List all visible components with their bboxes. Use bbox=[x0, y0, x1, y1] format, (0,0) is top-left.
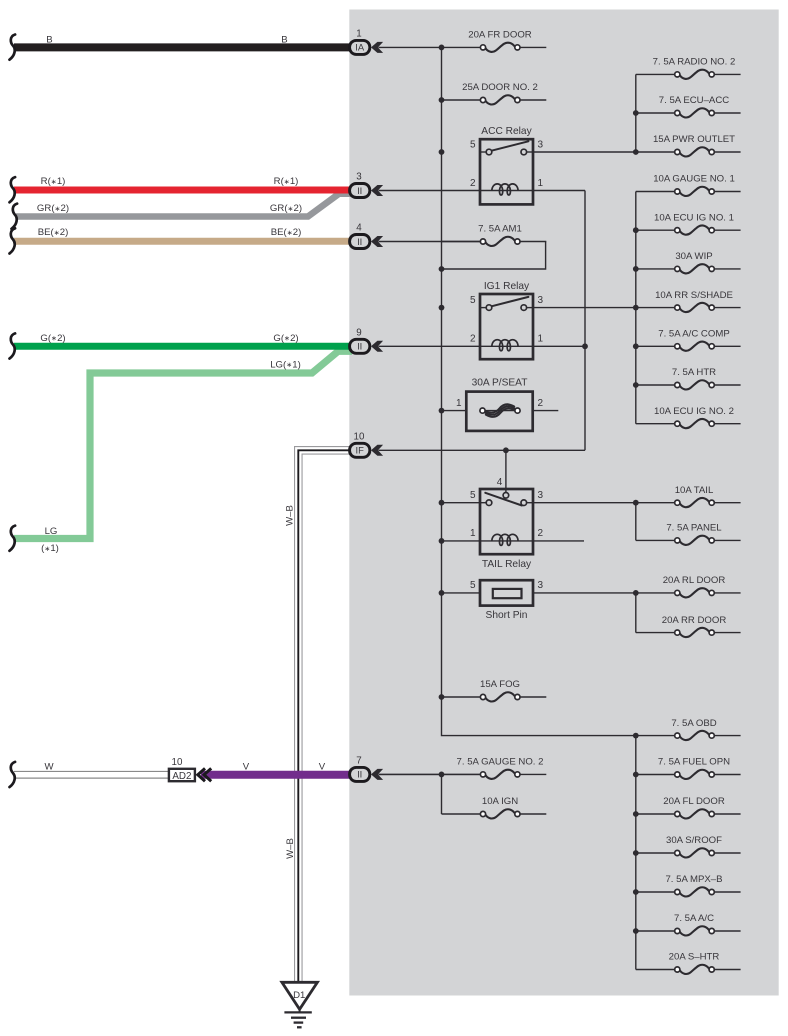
svg-text:3: 3 bbox=[356, 172, 362, 183]
wire: ACC relay pin 3 to right bus bbox=[533, 151, 636, 153]
pigtail wire B bbox=[10, 35, 16, 60]
svg-text:W: W bbox=[44, 762, 54, 773]
svg-text:10A ECU IG NO. 1: 10A ECU IG NO. 1 bbox=[654, 212, 734, 223]
pigtail wire W bbox=[10, 762, 16, 787]
svg-text:10A GAUGE NO. 1: 10A GAUGE NO. 1 bbox=[653, 174, 735, 185]
fuse 15A PWR OUTLET bbox=[636, 134, 741, 156]
svg-text:10A ECU IG NO. 2: 10A ECU IG NO. 2 bbox=[654, 406, 734, 417]
fuse 30A S/ROOF bbox=[636, 835, 741, 857]
wire: bus to P/SEAT pin 1 bbox=[442, 410, 467, 412]
svg-text:2: 2 bbox=[470, 178, 476, 189]
svg-text:3: 3 bbox=[538, 490, 544, 501]
wire: right bus door group bbox=[635, 593, 637, 633]
wire: Short Pin pin 3 to right bus bbox=[533, 592, 636, 594]
svg-text:10A IGN: 10A IGN bbox=[482, 796, 518, 807]
svg-text:20A FL DOOR: 20A FL DOOR bbox=[663, 796, 725, 807]
fuse 10A ECU IG NO. 1 bbox=[636, 212, 741, 234]
svg-text:AD2: AD2 bbox=[172, 771, 191, 782]
fuse 7. 5A OBD bbox=[636, 718, 741, 740]
junction dot coil return at IG1 pin 1 bbox=[582, 343, 588, 349]
fuse 7. 5A RADIO NO. 2 bbox=[636, 57, 741, 79]
fuse 7. 5A A/C bbox=[636, 913, 741, 935]
junction dot IF wire to TAIL pin 4 bbox=[503, 447, 509, 453]
relay ACC Relay bbox=[470, 126, 544, 205]
svg-text:7. 5A MPX–B: 7. 5A MPX–B bbox=[665, 874, 722, 885]
connector AD2 bbox=[169, 757, 195, 782]
svg-text:15A PWR OUTLET: 15A PWR OUTLET bbox=[653, 134, 735, 145]
fuse 7. 5A A/C COMP bbox=[636, 329, 741, 351]
relay IG1 Relay bbox=[470, 281, 544, 359]
svg-text:30A P/SEAT: 30A P/SEAT bbox=[472, 377, 528, 388]
wire LG light green bbox=[14, 351, 352, 538]
fuse 10A RR S/SHADE bbox=[636, 290, 741, 312]
svg-text:1: 1 bbox=[538, 334, 544, 345]
ground D1 bbox=[282, 982, 318, 1027]
wire: IGN branch drop bbox=[441, 774, 443, 814]
wire W white bbox=[14, 771, 169, 779]
svg-text:4: 4 bbox=[356, 223, 362, 234]
relay TAIL Relay bbox=[470, 489, 544, 554]
svg-text:1: 1 bbox=[356, 28, 361, 39]
svg-text:GR(∗​2): GR(∗​2) bbox=[270, 203, 302, 214]
wire: connector 9 to IG1 relay pin 2 bbox=[379, 345, 481, 347]
connector AD2 chevrons bbox=[198, 768, 211, 781]
wire V purple bbox=[201, 771, 352, 779]
fuse 20A FR DOOR bbox=[442, 30, 547, 52]
svg-text:LG: LG bbox=[45, 526, 58, 537]
svg-text:IG1 Relay: IG1 Relay bbox=[484, 281, 530, 292]
connector 9 II bbox=[350, 327, 384, 353]
svg-text:II: II bbox=[357, 769, 362, 780]
svg-text:30A WIP: 30A WIP bbox=[675, 251, 712, 262]
wire: TAIL relay pin 2 stub bbox=[533, 540, 584, 542]
wire: connector IF to relay returns bbox=[379, 449, 586, 451]
svg-text:5: 5 bbox=[470, 295, 476, 306]
svg-text:5: 5 bbox=[470, 490, 476, 501]
fuse 25A DOOR NO. 2 bbox=[442, 82, 547, 104]
wire: right bus TAIL group bbox=[635, 503, 637, 541]
svg-text:BE(∗​2): BE(∗​2) bbox=[38, 227, 69, 238]
fuse 7. 5A ECU–ACC bbox=[636, 95, 741, 117]
fuse 20A RL DOOR bbox=[636, 575, 741, 597]
svg-text:5: 5 bbox=[470, 139, 476, 150]
svg-text:4: 4 bbox=[497, 477, 503, 488]
fuse 7. 5A MPX–B bbox=[636, 874, 741, 896]
svg-text:10A TAIL: 10A TAIL bbox=[675, 485, 714, 496]
svg-text:7. 5A A/C: 7. 5A A/C bbox=[674, 913, 714, 924]
wire: right bus OBD group bbox=[635, 736, 637, 970]
wire: IA connector to bus bbox=[379, 46, 442, 48]
wire W-B white with black stripe bbox=[298, 450, 352, 982]
pigtail wire BE bbox=[10, 228, 16, 253]
svg-text:BE(∗​2): BE(∗​2) bbox=[271, 227, 302, 238]
svg-text:20A RL DOOR: 20A RL DOOR bbox=[663, 575, 726, 586]
connector 1 IA bbox=[350, 28, 384, 54]
short pin block bbox=[470, 580, 544, 621]
svg-text:20A FR DOOR: 20A FR DOOR bbox=[468, 30, 532, 41]
connector 3 II bbox=[350, 172, 384, 198]
svg-text:20A S–HTR: 20A S–HTR bbox=[669, 952, 720, 963]
svg-text:7. 5A PANEL: 7. 5A PANEL bbox=[666, 523, 722, 534]
fuse 7. 5A GAUGE NO. 2 bbox=[442, 757, 547, 779]
wire R red bbox=[14, 187, 352, 194]
wire: bus to TAIL relay pin 5 bbox=[442, 502, 481, 504]
fuse 10A GAUGE NO. 1 bbox=[636, 174, 741, 196]
fuse 15A FOG bbox=[442, 679, 547, 701]
svg-text:9: 9 bbox=[356, 327, 361, 338]
connector 4 II bbox=[350, 223, 384, 249]
fuse 20A S–HTR bbox=[636, 952, 741, 974]
fuse 7. 5A AM1 bbox=[442, 224, 547, 246]
svg-text:ACC Relay: ACC Relay bbox=[481, 126, 532, 137]
svg-text:7. 5A RADIO NO. 2: 7. 5A RADIO NO. 2 bbox=[653, 57, 736, 68]
wire: IG1 relay pin 1 to return vertical bbox=[533, 345, 585, 347]
wire: TAIL relay pin 3 to right bus bbox=[533, 502, 636, 504]
svg-text:W–B: W–B bbox=[285, 838, 296, 859]
fuse 10A ECU IG NO. 2 bbox=[636, 406, 741, 428]
wire: bus to TAIL relay pin 1 bbox=[442, 540, 481, 542]
fuse 7. 5A PANEL bbox=[636, 523, 741, 545]
svg-text:10: 10 bbox=[354, 431, 365, 442]
wire: right bus IG group bbox=[635, 192, 637, 424]
svg-text:W–B: W–B bbox=[285, 505, 296, 526]
wire: P/SEAT pin 2 stub bbox=[533, 410, 559, 412]
pigtail wire GR bbox=[12, 204, 18, 229]
pigtail wire LG bbox=[10, 526, 16, 551]
svg-text:R(∗​1): R(∗​1) bbox=[41, 176, 66, 187]
svg-text:II: II bbox=[357, 185, 362, 196]
svg-text:II: II bbox=[357, 236, 362, 247]
svg-text:II: II bbox=[357, 341, 362, 352]
fuse 20A FL DOOR bbox=[636, 796, 741, 818]
svg-text:1: 1 bbox=[538, 178, 544, 189]
svg-text:7. 5A ECU–ACC: 7. 5A ECU–ACC bbox=[659, 95, 729, 106]
pigtail wire R bbox=[10, 177, 16, 202]
svg-text:1: 1 bbox=[470, 528, 476, 539]
wire GR gray bbox=[16, 194, 352, 217]
svg-text:V: V bbox=[319, 762, 326, 773]
svg-text:D1: D1 bbox=[293, 990, 305, 1001]
svg-text:TAIL Relay: TAIL Relay bbox=[482, 559, 532, 570]
svg-text:IF: IF bbox=[356, 445, 365, 456]
wire: connector 7 to GAUGE NO.2 fuse bbox=[379, 773, 481, 775]
connector 10 IF bbox=[350, 431, 384, 457]
svg-text:GR(∗​2): GR(∗​2) bbox=[37, 203, 69, 214]
wire: AM1 fuse return loop bbox=[442, 242, 546, 270]
svg-text:B: B bbox=[281, 35, 287, 46]
svg-text:3: 3 bbox=[538, 295, 544, 306]
svg-text:1: 1 bbox=[456, 398, 462, 409]
svg-text:LG(∗​1): LG(∗​1) bbox=[270, 359, 301, 370]
wire: connector 4 to AM1 fuse bbox=[379, 241, 481, 243]
svg-text:7: 7 bbox=[356, 755, 361, 766]
svg-text:R(∗​1): R(∗​1) bbox=[274, 176, 299, 187]
fuse 10A IGN bbox=[442, 796, 547, 818]
wire: connector 7 to bus bbox=[379, 773, 442, 775]
junction dots on main bus bbox=[439, 45, 445, 51]
pigtail wire G bbox=[10, 333, 16, 358]
wire BE beige bbox=[14, 238, 352, 245]
wire: IG1 relay pin 3 to right bus bbox=[533, 307, 636, 309]
svg-text:7. 5A A/C COMP: 7. 5A A/C COMP bbox=[658, 329, 729, 340]
svg-text:7. 5A AM1: 7. 5A AM1 bbox=[478, 224, 522, 235]
svg-text:20A RR DOOR: 20A RR DOOR bbox=[662, 615, 727, 626]
svg-text:3: 3 bbox=[538, 580, 544, 591]
fuse 20A RR DOOR bbox=[636, 615, 741, 637]
wire: right bus ACC group bbox=[635, 74, 637, 152]
wire: main vertical bus from connector IA feed bbox=[442, 47, 636, 735]
connector 7 II bbox=[350, 755, 384, 781]
svg-text:25A DOOR NO. 2: 25A DOOR NO. 2 bbox=[462, 82, 538, 93]
wire: TAIL relay pin 4 drop bbox=[505, 450, 507, 492]
svg-text:15A FOG: 15A FOG bbox=[480, 679, 520, 690]
svg-text:IA: IA bbox=[355, 42, 365, 53]
svg-text:30A S/ROOF: 30A S/ROOF bbox=[666, 835, 722, 846]
svg-text:G(∗​2): G(∗​2) bbox=[273, 333, 298, 344]
fusible link 30A P/SEAT bbox=[456, 377, 544, 431]
wire: connector 3 to ACC relay pin 2 bbox=[379, 190, 481, 192]
wire G green bbox=[14, 343, 352, 350]
fuse 7. 5A HTR bbox=[636, 367, 741, 389]
svg-text:10A RR S/SHADE: 10A RR S/SHADE bbox=[655, 290, 733, 301]
svg-text:Short Pin: Short Pin bbox=[486, 610, 528, 621]
svg-text:G(∗​2): G(∗​2) bbox=[40, 333, 65, 344]
junction block panel background bbox=[349, 10, 778, 996]
svg-text:7. 5A OBD: 7. 5A OBD bbox=[671, 718, 716, 729]
fuse 10A TAIL bbox=[636, 485, 741, 507]
svg-text:7. 5A HTR: 7. 5A HTR bbox=[672, 367, 716, 378]
svg-text:10: 10 bbox=[172, 757, 183, 768]
wire B black bbox=[14, 43, 352, 51]
junction dots on right buses bbox=[633, 110, 639, 116]
svg-text:5: 5 bbox=[470, 580, 476, 591]
svg-text:2: 2 bbox=[538, 398, 544, 409]
fuse 30A WIP bbox=[636, 251, 741, 273]
svg-text:7. 5A GAUGE NO. 2: 7. 5A GAUGE NO. 2 bbox=[457, 757, 544, 768]
svg-text:B: B bbox=[46, 35, 52, 46]
wire: ACC relay pin 1 to return vertical bbox=[533, 190, 585, 192]
svg-text:2: 2 bbox=[538, 528, 544, 539]
svg-text:3: 3 bbox=[538, 139, 544, 150]
wire: relay coil return vertical to IF bbox=[584, 191, 586, 451]
svg-text:V: V bbox=[243, 762, 250, 773]
svg-text:(∗​1): (∗​1) bbox=[41, 543, 59, 554]
svg-text:2: 2 bbox=[470, 334, 476, 345]
fuse 7. 5A FUEL OPN bbox=[636, 757, 741, 779]
wire: bus to Short Pin pin 5 bbox=[442, 592, 481, 594]
svg-text:7. 5A FUEL OPN: 7. 5A FUEL OPN bbox=[658, 757, 730, 768]
